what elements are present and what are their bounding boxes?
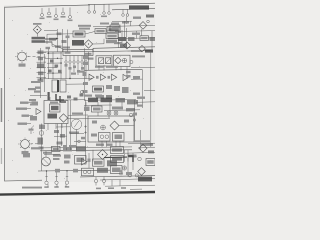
block box L3 <box>111 166 123 174</box>
capacitor C15 <box>126 71 131 73</box>
note blob <box>23 153 30 157</box>
circle c1 <box>128 174 131 177</box>
dial linkage dashes <box>28 55 41 57</box>
wire v x57.5 low <box>57 124 59 151</box>
wire y110 <box>104 109 140 112</box>
wire h y143.5 <box>128 142 155 145</box>
labels under big box <box>96 144 104 146</box>
resistor R1 <box>49 38 56 41</box>
sub-box stems <box>102 141 120 147</box>
wire v x46 sp <box>45 151 47 158</box>
wire v x66.5 <box>66 124 68 151</box>
capacitor C7 <box>48 70 52 73</box>
meter label above <box>72 113 83 115</box>
speaker label <box>43 152 52 154</box>
wire v x127 <box>126 67 128 79</box>
mixer stage parts <box>55 33 67 48</box>
block box L1 <box>111 147 124 154</box>
wire v x136.5 <box>136 31 138 39</box>
label right col <box>137 105 143 107</box>
wire h y63 <box>47 62 62 64</box>
wire osc to driver <box>36 34 38 37</box>
wire v x93 low <box>92 150 94 162</box>
wire vertical x40.5 <box>40 48 42 98</box>
labels above bus <box>95 66 118 68</box>
wire TP1 right <box>93 39 104 44</box>
mixer module box <box>114 55 131 66</box>
oscillator label <box>33 23 42 25</box>
wire bus y154 <box>44 153 60 155</box>
wire h y119 inbox <box>88 117 110 119</box>
component chain on x84-88 <box>83 56 89 93</box>
wire v x41.5 bottom <box>41 156 43 171</box>
wire vertical x41.5 <box>41 124 43 157</box>
wire h y90 right <box>144 89 155 91</box>
diamond TP8 <box>134 140 150 152</box>
border frame bottom-left <box>5 179 42 182</box>
chain below module: cap C20 <box>39 125 45 130</box>
jack J8 <box>101 4 107 17</box>
node circle <box>78 140 81 143</box>
label small <box>62 47 70 49</box>
wire y79 extend <box>70 77 93 79</box>
wire vertical x124 <box>124 21 126 39</box>
coupling C10 <box>96 76 99 79</box>
box text right edge <box>146 159 155 166</box>
labels right of SP1 <box>53 155 61 161</box>
tuning dial D2 <box>18 138 32 151</box>
meter label below <box>69 132 79 134</box>
wire y84 <box>66 83 84 85</box>
label lw4 <box>18 123 32 125</box>
block box L2 <box>111 156 124 163</box>
diamond TP1 <box>84 40 92 48</box>
left margin label L.O. wires <box>20 102 32 104</box>
block box 2 <box>106 34 118 39</box>
wire v x61 <box>60 52 62 79</box>
ps label <box>91 134 97 137</box>
resistor R12 <box>80 94 84 97</box>
wire vertical x85.5 <box>85 100 87 156</box>
tuning dial D1 <box>15 50 29 63</box>
resistor R5 <box>46 47 51 49</box>
thick stub <box>48 92 50 100</box>
border frame left <box>4 7 6 181</box>
squelch parts <box>106 85 129 93</box>
knob box kb1 <box>82 168 94 176</box>
bus y176.5 <box>80 176 155 177</box>
limiter label box <box>95 29 106 34</box>
resistor R6 <box>50 60 54 63</box>
wire arrow a2 <box>45 43 60 47</box>
component on bus y170 <box>55 168 108 173</box>
module stubs up <box>50 97 60 101</box>
diamond TP6 <box>98 150 108 160</box>
coupling C11 <box>108 76 111 79</box>
block labels right <box>118 37 135 41</box>
wire h y153 right <box>125 151 155 154</box>
bottom right dashes <box>96 187 142 189</box>
squelch label box <box>93 86 104 92</box>
label right low <box>133 93 140 95</box>
power amplifier label <box>78 25 91 30</box>
diamond TP4 <box>59 114 67 122</box>
jack g5 <box>102 177 105 183</box>
cap on switch line 5 <box>81 67 84 70</box>
part <box>84 107 90 112</box>
plus circle <box>101 125 106 130</box>
wire h y67.5 right <box>131 66 155 69</box>
wire h y73 <box>47 72 62 74</box>
coil L5 <box>38 138 44 145</box>
label under big box 2 <box>107 144 113 146</box>
parts row <box>112 107 135 117</box>
label left of bus <box>31 147 39 149</box>
dial D2 label <box>22 151 29 154</box>
capacitor C30 <box>124 120 129 123</box>
diamond TP3 <box>124 42 131 49</box>
squelch label (dark) <box>129 5 149 9</box>
wire v x152 top <box>151 31 153 51</box>
plus lamp <box>122 166 126 170</box>
label above TP2 <box>133 17 141 19</box>
wire v x61.5 low <box>61 124 63 146</box>
wire v x85.5 low2 <box>85 156 87 160</box>
vertical wire x88.5 <box>88 52 90 71</box>
audio module dark parts <box>48 114 58 119</box>
wire v x126.5 <box>126 28 128 48</box>
label blob <box>107 160 117 166</box>
wire h y141.3 <box>74 140 86 142</box>
wire vertical x142.5 <box>142 69 144 108</box>
cross wires near meter <box>56 119 88 128</box>
label lw2 <box>16 108 31 110</box>
PA block box <box>73 31 85 37</box>
oscillator block label box <box>32 37 46 43</box>
wire h y26 right <box>118 24 155 27</box>
jack J4 <box>61 8 66 18</box>
label row light <box>116 98 126 102</box>
lamp DS3 <box>114 111 118 115</box>
top-right long wire <box>88 3 155 4</box>
IF wire top <box>93 25 118 28</box>
switch contact row <box>65 56 87 80</box>
power supply box <box>88 116 134 142</box>
wire h y67.5 <box>47 67 57 69</box>
jack J3 <box>54 8 59 20</box>
module title <box>50 102 58 104</box>
dial D2 linkage <box>31 143 39 145</box>
cap on switch line 2 <box>69 67 72 70</box>
parts mid <box>64 155 71 164</box>
label blobs right of TP7 <box>148 150 154 153</box>
diamond TP9 <box>138 168 146 176</box>
bus y170.5 <box>38 169 110 172</box>
capacitor C22 <box>63 145 67 148</box>
wire v x70.5 <box>70 100 72 150</box>
resistor R45 <box>88 159 91 162</box>
resistor R30 <box>92 121 97 124</box>
wire bus above T1 <box>41 78 71 80</box>
label row right <box>127 100 138 104</box>
circle node <box>130 61 133 64</box>
dark label bottom right <box>138 177 152 182</box>
vertical wire x84.5 <box>84 48 86 100</box>
diamond TP5 <box>110 121 119 130</box>
lamp circle <box>138 157 142 161</box>
amp stage triangle A3 <box>112 74 117 80</box>
parts right top <box>137 97 145 99</box>
wire y99 <box>64 99 86 101</box>
label under bus <box>85 53 92 55</box>
wire y79 right seg <box>131 78 143 80</box>
speaker circle SP1 <box>42 157 51 166</box>
amp stage triangle A4 <box>123 74 128 80</box>
coil L2 <box>37 64 44 69</box>
labels under <box>28 88 36 106</box>
block box bb1 <box>93 159 105 166</box>
wire y100 <box>84 99 136 102</box>
antenna jack J1 <box>40 8 45 19</box>
resistor R22 <box>57 142 63 145</box>
jack g3 <box>65 170 69 188</box>
wire bus right y51.5 <box>93 51 151 52</box>
lower bus y150 <box>40 150 132 151</box>
block box bb3 <box>128 155 137 163</box>
vertical wires x124-128 <box>125 150 129 162</box>
wire bus y51.5 <box>40 48 93 52</box>
resistor R40 <box>126 172 132 175</box>
band switch box S1 <box>63 49 93 55</box>
audio module box <box>44 101 68 124</box>
wire v x89 low <box>88 153 90 168</box>
bus y179.5 <box>100 179 155 180</box>
wire top right y21 <box>112 20 132 22</box>
amp stage triangle A1 <box>89 74 94 80</box>
capacitor C35 <box>133 113 137 116</box>
top-right bus wire <box>112 9 155 10</box>
wire v x122 <box>121 30 123 44</box>
wire h y115 <box>68 114 88 116</box>
label right mid <box>132 33 140 35</box>
page bottom edge <box>0 192 155 195</box>
capacitor C21 <box>54 130 59 133</box>
small part above D2 <box>29 126 35 135</box>
wire v x53 <box>52 52 54 79</box>
wire v x133 <box>132 153 134 170</box>
cap on switch line 3 <box>73 66 76 69</box>
resistor R11 <box>74 98 78 101</box>
junction dots <box>40 53 71 80</box>
capacitor C16 <box>126 75 131 77</box>
resistor R10 <box>67 96 71 99</box>
IF transformer T1 <box>52 80 58 92</box>
box with marks <box>75 156 87 165</box>
diamond TP10 <box>139 45 145 51</box>
jack stubs below <box>48 183 104 188</box>
resistor R7 <box>55 65 59 68</box>
cap on switch line 4 <box>77 70 80 73</box>
wire arrow a1 <box>45 38 59 40</box>
row v stubs <box>86 102 122 111</box>
label left of boxes <box>88 58 94 60</box>
cap on switch line 1 <box>65 64 68 67</box>
node circle right <box>133 119 135 121</box>
audio out label row dark1 <box>88 98 98 103</box>
jack J10 <box>122 10 125 17</box>
bent thick wires <box>56 94 66 102</box>
lamp DS2 <box>107 111 111 115</box>
discriminator block boxes <box>107 27 120 32</box>
resistor R2 <box>38 79 44 83</box>
audio out label row dark2 <box>101 98 113 103</box>
bottom labels of IF section <box>84 95 102 97</box>
jack J9 <box>108 4 111 14</box>
component column stubs <box>37 52 47 77</box>
wire PA to limiter <box>85 31 95 34</box>
wire bus y48 <box>93 47 155 49</box>
label mid-bottom <box>69 145 76 147</box>
antenna jack J2 <box>47 8 52 18</box>
wire v x130.5 <box>130 21 132 26</box>
misc small caps under switch <box>71 71 84 75</box>
capacitor C5 <box>66 36 70 39</box>
module stems down <box>48 124 62 131</box>
wire vertical v1 <box>57 29 59 52</box>
component on bus b3 <box>76 146 86 151</box>
wire vertical x44.5 <box>44 54 46 92</box>
wire v x47 <box>46 34 48 44</box>
wire vertical x150.8 <box>150 51 152 102</box>
wire v x48.5 <box>48 49 50 79</box>
wire y147.5 right <box>138 146 155 149</box>
wire h y133.5 <box>70 133 84 135</box>
label right edge <box>141 144 153 146</box>
page left edge smudge <box>1 88 3 122</box>
left of module parts <box>30 102 41 121</box>
scan speckles <box>8 12 151 179</box>
wire meter down <box>76 129 78 150</box>
wire osc output <box>45 40 57 45</box>
oscillator module box (with sine) <box>96 56 112 66</box>
wire vertical v2 <box>62 29 64 52</box>
wire h y30 <box>44 29 57 31</box>
parts right of A4 <box>133 76 140 79</box>
circle c2 <box>135 174 138 177</box>
varicap circle <box>39 131 44 136</box>
block label right2 <box>140 36 155 41</box>
small block box <box>110 25 120 31</box>
box stems to bus <box>99 65 121 70</box>
driver block label <box>72 40 84 46</box>
wire h y31 right <box>120 30 155 33</box>
IF amp bus wire <box>85 69 143 70</box>
wire v x151 low <box>150 102 152 147</box>
jack J6 <box>88 5 91 14</box>
plus mark on wire <box>84 125 87 134</box>
wire v x67 <box>67 30 69 52</box>
wire h y34 <box>47 33 73 35</box>
jack g2 <box>54 170 58 188</box>
small parts x35-44 y86-92 <box>34 87 41 93</box>
capacitor C8 <box>58 70 62 73</box>
second row: box <box>92 106 103 112</box>
label row top-mid <box>100 23 119 25</box>
resistor R21 <box>60 134 65 138</box>
wire diag <box>52 44 63 49</box>
component on bus b1 <box>52 146 61 151</box>
jack J5 <box>68 8 73 22</box>
meter M1 <box>71 119 81 129</box>
squelch row blobs <box>80 90 112 99</box>
wire h y53 <box>47 52 62 54</box>
wire h y105 row <box>84 104 112 106</box>
wire y95 <box>30 94 47 96</box>
amp stage triangle A2 <box>101 74 106 80</box>
label row 4 <box>106 40 117 44</box>
wire v x141.5 <box>141 29 143 36</box>
RF label left <box>31 81 41 83</box>
wire <box>106 30 118 32</box>
lower bus y147.6 <box>40 147 132 148</box>
wire right column x134.5 <box>134 100 136 142</box>
IF transformer T2 <box>57 80 66 92</box>
crystal Y1 diamond <box>33 26 41 34</box>
wire h y185.8 <box>105 185 155 186</box>
ps sub box 2 <box>113 133 125 142</box>
jack J7 <box>93 5 96 14</box>
thick wire y157 <box>104 156 127 159</box>
audio module inner block <box>50 104 61 112</box>
tuned circuit column: coil L1 <box>38 51 44 55</box>
bottom jacks: stem+circle g1 <box>44 170 48 188</box>
capacitor C26 <box>81 137 85 140</box>
amp triangle A5 <box>82 158 88 165</box>
stems bottom right <box>112 180 120 186</box>
dark blob right of rows <box>120 44 127 48</box>
wire y38.5 <box>108 38 155 39</box>
ps sub box 1 (knobs) <box>99 133 111 142</box>
component on bus b2 <box>63 147 72 151</box>
diamond TP2 <box>139 20 149 29</box>
part <box>39 147 44 150</box>
dial D1 label <box>19 64 26 67</box>
capacitor C1 <box>38 58 43 61</box>
jack J11 <box>126 9 129 16</box>
wire h y122 inbox <box>119 124 135 126</box>
figure caption text <box>22 187 42 189</box>
wire x109 squelch down <box>108 115 110 118</box>
wire <box>126 17 128 25</box>
label lw3 <box>22 115 34 117</box>
wire vertical x118 <box>118 26 120 39</box>
wire v x118 mid <box>118 39 120 48</box>
label rows above right module <box>131 49 153 57</box>
wire y102 right <box>136 101 155 104</box>
border frame top <box>5 5 90 7</box>
jack circle low <box>120 170 123 175</box>
capacitor C2 <box>38 72 44 76</box>
wire stub box top <box>97 112 99 116</box>
wire y58 switch <box>45 57 64 59</box>
wire v x128 low <box>127 153 129 177</box>
wire vertical x140.5 <box>140 130 142 150</box>
misc parts left of TP3 <box>114 22 129 45</box>
wire h y136 <box>54 135 67 137</box>
jack g4 <box>94 177 97 183</box>
